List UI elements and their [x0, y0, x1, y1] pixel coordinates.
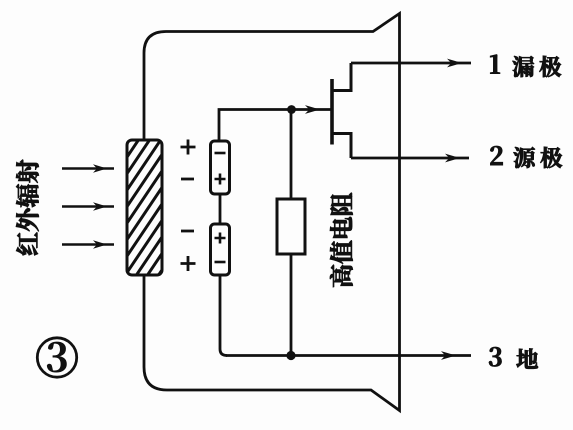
wire C2 bottom to ground bus	[220, 275, 227, 356]
wire C1-C2	[219, 194, 222, 224]
ground bus wire / terminal 3 line	[226, 354, 471, 357]
pyroelectric capacitor element C2	[211, 224, 230, 275]
polarity sign + (C1 top)	[181, 140, 196, 155]
JFET gate wire with arrow	[305, 105, 320, 114]
pyroelectric capacitor element C1	[211, 141, 230, 194]
terminal 2 (source) line	[351, 157, 469, 160]
terminal 1 (drain) line	[351, 62, 471, 65]
label 红外辐射 (infrared radiation)	[16, 160, 39, 256]
wire C1 top to gate node	[219, 110, 332, 142]
label 2 源极 (source)	[490, 146, 502, 165]
label 高值电阻 (high-value resistor)	[330, 193, 353, 287]
infrared radiation arrows	[62, 167, 114, 169]
polarity sign - (C1 bottom)	[181, 178, 194, 181]
polarity sign + (C2 bottom)	[181, 256, 196, 271]
JFET source lead	[332, 134, 351, 159]
JFET drain lead	[332, 63, 351, 91]
sensor case outline	[144, 14, 400, 411]
figure number 3 in circle	[37, 338, 76, 377]
JFET gate bar	[330, 79, 334, 145]
label 1 漏极 (drain)	[490, 55, 499, 74]
junction dot at gate node	[287, 105, 296, 114]
resistor R wire bottom	[290, 254, 293, 356]
resistor R (high value) wire top	[290, 110, 293, 200]
resistor R body	[277, 199, 305, 254]
label 3 地 (ground)	[489, 347, 501, 366]
polarity sign - (C2 top)	[181, 230, 194, 233]
junction dot at ground bus	[286, 351, 295, 360]
